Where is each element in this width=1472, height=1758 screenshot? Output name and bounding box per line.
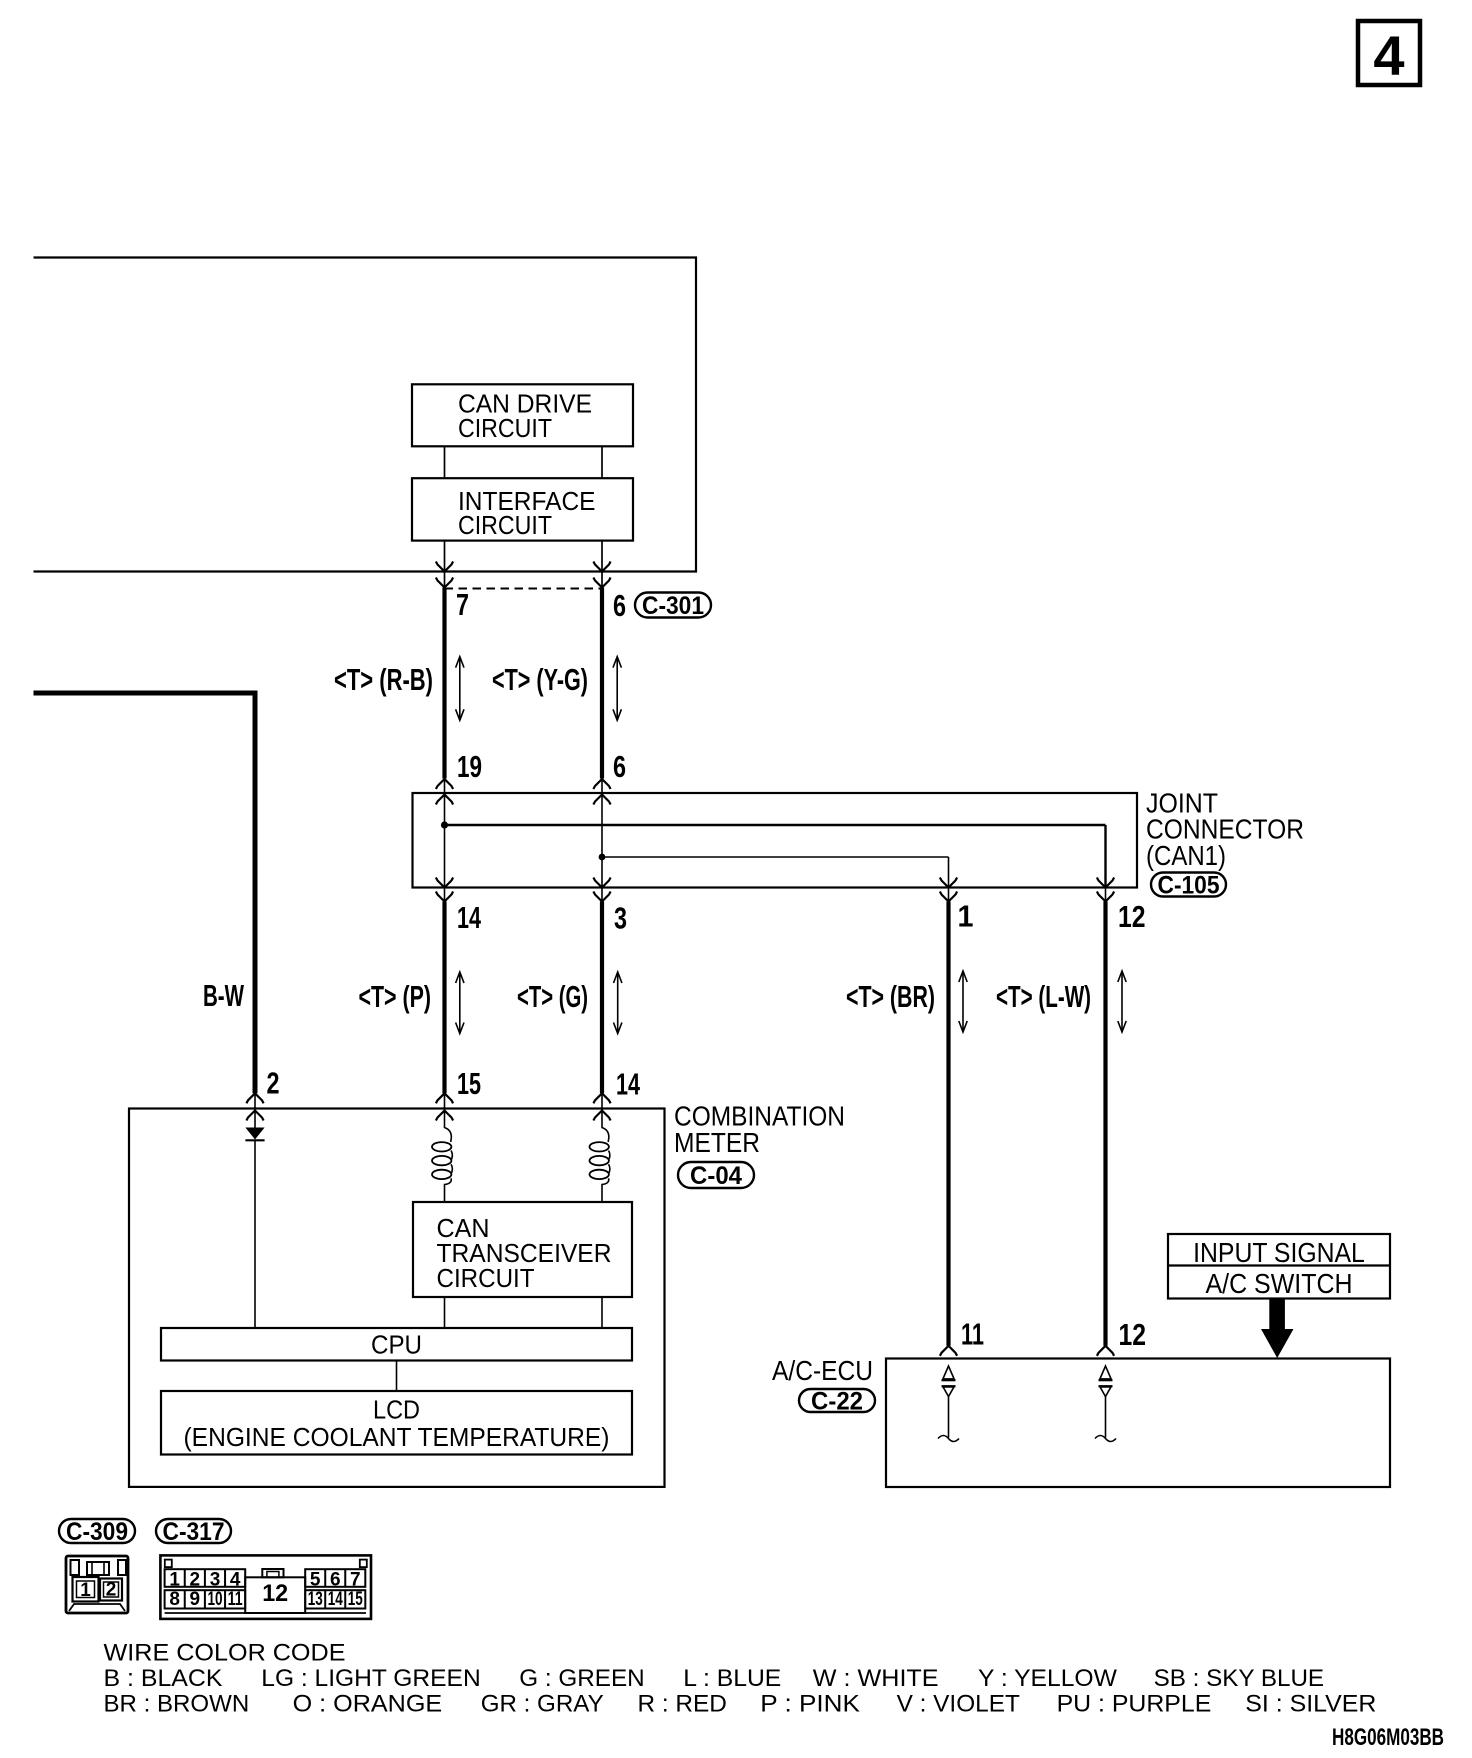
connector C-317 face view	[160, 1555, 371, 1619]
svg-text:10: 10	[208, 1589, 223, 1610]
svg-text:H8G06M03BB: H8G06M03BB	[1332, 1724, 1444, 1751]
connector chevrons C-105 bottom pin 1	[940, 878, 957, 903]
svg-text:LCD: LCD	[373, 1396, 420, 1424]
svg-text:CIRCUIT: CIRCUIT	[458, 415, 552, 443]
svg-text:V : VIOLET: V : VIOLET	[897, 1691, 1020, 1718]
svg-text:19: 19	[457, 749, 482, 784]
wire CAN-H <T>(R-B) C-301 pin7 to C-105 pin 19	[442, 588, 446, 779]
LCD block	[161, 1391, 632, 1455]
combination meter box C-04	[129, 1109, 665, 1487]
svg-text:PU : PURPLE: PU : PURPLE	[1057, 1691, 1212, 1718]
wire stub pin 19 crossing	[444, 778, 446, 793]
svg-text:14: 14	[457, 900, 482, 935]
svg-text:C-317: C-317	[163, 1518, 225, 1546]
svg-text:P : PINK: P : PINK	[760, 1691, 860, 1718]
wire CAN-L <T>(Y-G) C-301 pin6 to C-105 pin 6	[600, 588, 604, 779]
svg-text:SB : SKY BLUE: SB : SKY BLUE	[1154, 1665, 1325, 1692]
joint connector label text	[1146, 788, 1304, 871]
svg-text:12: 12	[1119, 1317, 1147, 1352]
svg-text:6: 6	[330, 1570, 341, 1591]
svg-text:9: 9	[190, 1589, 201, 1610]
svg-text:O : ORANGE: O : ORANGE	[293, 1691, 443, 1718]
connector C-301 dashed tie line	[445, 588, 603, 590]
svg-text:C-04: C-04	[690, 1162, 742, 1190]
svg-text:13: 13	[308, 1589, 323, 1610]
svg-text:11: 11	[961, 1317, 984, 1352]
svg-text:2: 2	[190, 1570, 201, 1591]
input terminal symbol pin 11	[938, 1366, 959, 1442]
svg-text:11: 11	[228, 1589, 243, 1610]
diode (cathode down)	[245, 1128, 264, 1141]
wire stub pin 6 crossing	[601, 778, 603, 793]
wire: CAN drive to interface (right)	[601, 446, 603, 478]
junction node CAN-L	[599, 854, 606, 861]
connector chevrons C-04 pin 14	[593, 1093, 610, 1121]
svg-text:METER: METER	[674, 1127, 760, 1158]
input signal / A/C switch box	[1168, 1234, 1390, 1299]
connector chevrons C-04 pin 2	[246, 1093, 263, 1121]
svg-text:C-22: C-22	[811, 1388, 863, 1416]
svg-text:A/C-ECU: A/C-ECU	[772, 1355, 873, 1386]
svg-text:1: 1	[958, 899, 974, 934]
svg-text:LG : LIGHT GREEN: LG : LIGHT GREEN	[261, 1665, 480, 1692]
page number box 4	[1358, 21, 1420, 87]
twisted-pair arrow (Y-G)	[616, 657, 618, 720]
combination meter label	[674, 1101, 845, 1158]
CAN drive circuit block	[412, 384, 633, 446]
connector chevron C-22 pin 12	[1097, 1346, 1114, 1356]
input terminal symbol pin 12	[1095, 1366, 1116, 1442]
svg-text:6: 6	[613, 749, 626, 784]
svg-text:CAN DRIVE: CAN DRIVE	[458, 390, 592, 418]
svg-text:BR : BROWN: BR : BROWN	[104, 1691, 250, 1718]
twisted-pair arrow (G)	[617, 973, 619, 1034]
connector C-317 label	[156, 1519, 231, 1543]
connector chevron C-22 pin 11	[940, 1346, 957, 1356]
svg-text:14: 14	[616, 1067, 641, 1102]
wire inside C-105: pin19 to pin14 vertical	[444, 793, 446, 888]
svg-text:CAN: CAN	[437, 1215, 490, 1243]
svg-text:15: 15	[348, 1589, 363, 1610]
connector C-04 label	[678, 1162, 754, 1188]
svg-text:SI : SILVER: SI : SILVER	[1245, 1691, 1376, 1718]
svg-text:<T> (R-B): <T> (R-B)	[334, 662, 433, 697]
interface circuit block	[412, 478, 633, 540]
svg-text:<T> (P): <T> (P)	[359, 979, 432, 1014]
svg-text:G : GREEN: G : GREEN	[519, 1665, 644, 1692]
wire <T>(P) C-105 pin14 to meter pin15	[442, 902, 446, 1094]
connector chevrons C-105 bottom pin 3	[593, 878, 610, 903]
wire inside C-105: pin6 to pin3 vertical	[601, 793, 603, 888]
svg-text:WIRE COLOR CODE: WIRE COLOR CODE	[104, 1640, 346, 1667]
CAN transceiver circuit block	[413, 1202, 632, 1297]
svg-text:R : RED: R : RED	[638, 1691, 727, 1718]
svg-text:15: 15	[457, 1066, 481, 1101]
wire <T>(BR) C-105 pin1 to A/C-ECU pin11	[946, 902, 950, 1346]
connector chevrons pin 19	[436, 779, 453, 805]
wire color code legend	[104, 1640, 1377, 1718]
svg-text:INPUT SIGNAL: INPUT SIGNAL	[1193, 1237, 1365, 1268]
svg-text:C-301: C-301	[642, 592, 704, 620]
svg-text:C-309: C-309	[66, 1518, 128, 1546]
wire inside C-105: bus to pin 1	[948, 857, 950, 888]
svg-text:2: 2	[267, 1066, 280, 1101]
svg-text:GR : GRAY: GR : GRAY	[481, 1691, 604, 1718]
CPU block	[161, 1328, 632, 1361]
twisted-pair arrow (BR)	[962, 972, 964, 1032]
connector chevrons C-105 bottom pin 14	[436, 878, 453, 903]
wire: interface to connector C-301 pin 7	[436, 541, 453, 588]
svg-text:A/C SWITCH: A/C SWITCH	[1206, 1268, 1353, 1299]
svg-text:2: 2	[106, 1580, 117, 1601]
ECU block outline (partial, continues off left edge)	[34, 258, 697, 572]
svg-text:5: 5	[310, 1570, 321, 1591]
svg-text:C-105: C-105	[1158, 872, 1220, 900]
svg-text:6: 6	[613, 588, 626, 623]
wire <T>(L-W) C-105 pin12 to A/C-ECU pin12	[1103, 902, 1107, 1346]
connector C-309 label	[59, 1519, 135, 1543]
connector chevrons C-04 pin 15	[436, 1093, 453, 1121]
svg-text:12: 12	[262, 1580, 288, 1607]
svg-text:CIRCUIT: CIRCUIT	[458, 512, 552, 540]
noise filter coil (pin 14 line)	[590, 1109, 610, 1203]
connector C-22 label	[799, 1389, 875, 1412]
svg-text:3: 3	[614, 901, 627, 936]
connector chevrons pin 6	[593, 779, 610, 805]
joint connector (CAN1) C-105 box	[413, 793, 1138, 888]
svg-text:<T> (BR): <T> (BR)	[846, 979, 935, 1014]
wire transceiver to CPU (right)	[601, 1297, 603, 1328]
connector C-301 label	[635, 593, 711, 618]
wire diode to CPU	[254, 1140, 256, 1328]
wire inside C-105: bus to pin 12	[1104, 825, 1106, 888]
bus bar CAN-H inside C-105	[445, 824, 1106, 826]
wire <T>(G) C-105 pin3 to meter pin14	[600, 902, 604, 1094]
svg-text:14: 14	[328, 1589, 343, 1610]
svg-text:8: 8	[169, 1589, 180, 1610]
wire: CAN drive to interface (left)	[444, 446, 446, 478]
svg-text:7: 7	[456, 587, 469, 622]
wire: interface to connector C-301 pin 6	[593, 541, 610, 588]
connector C-309 face view	[66, 1556, 128, 1613]
svg-text:1: 1	[169, 1570, 180, 1591]
bus bar CAN-L inside C-105	[602, 856, 949, 858]
svg-text:12: 12	[1118, 899, 1146, 934]
svg-text:7: 7	[350, 1570, 361, 1591]
svg-text:1: 1	[80, 1580, 91, 1601]
connector chevrons C-105 bottom pin 12	[1097, 878, 1114, 903]
wire transceiver to CPU (left)	[444, 1297, 446, 1328]
twisted-pair arrow (R-B)	[459, 657, 461, 720]
junction node CAN-H	[441, 821, 448, 828]
svg-text:CIRCUIT: CIRCUIT	[437, 1265, 535, 1293]
svg-text:<T> (Y-G): <T> (Y-G)	[492, 662, 588, 697]
wire CPU to LCD	[396, 1361, 398, 1392]
svg-text:B-W: B-W	[203, 978, 244, 1013]
twisted-pair arrow (L-W)	[1121, 972, 1123, 1032]
svg-text:Y : YELLOW: Y : YELLOW	[978, 1665, 1118, 1692]
A/C-ECU box C-22	[886, 1359, 1390, 1488]
wire B-W from off-page to meter pin 2	[34, 693, 256, 1093]
svg-text:<T> (L-W): <T> (L-W)	[996, 979, 1091, 1014]
svg-text:3: 3	[210, 1570, 221, 1591]
svg-text:B : BLACK: B : BLACK	[104, 1665, 224, 1692]
svg-text:4: 4	[230, 1570, 241, 1591]
svg-text:W : WHITE: W : WHITE	[813, 1665, 939, 1692]
svg-text:(ENGINE COOLANT TEMPERATURE): (ENGINE COOLANT TEMPERATURE)	[184, 1424, 610, 1452]
twisted-pair arrow (P)	[459, 973, 461, 1034]
connector C-105 label	[1151, 873, 1226, 897]
svg-text:<T> (G): <T> (G)	[517, 979, 588, 1014]
svg-text:L : BLUE: L : BLUE	[683, 1665, 781, 1692]
svg-text:4: 4	[1373, 24, 1404, 87]
input signal arrow	[1261, 1299, 1294, 1359]
svg-text:(CAN1): (CAN1)	[1146, 840, 1226, 871]
svg-text:CPU: CPU	[371, 1331, 422, 1359]
noise filter coil (pin 15 line)	[432, 1109, 452, 1203]
wire pin2 into meter	[254, 1109, 256, 1128]
